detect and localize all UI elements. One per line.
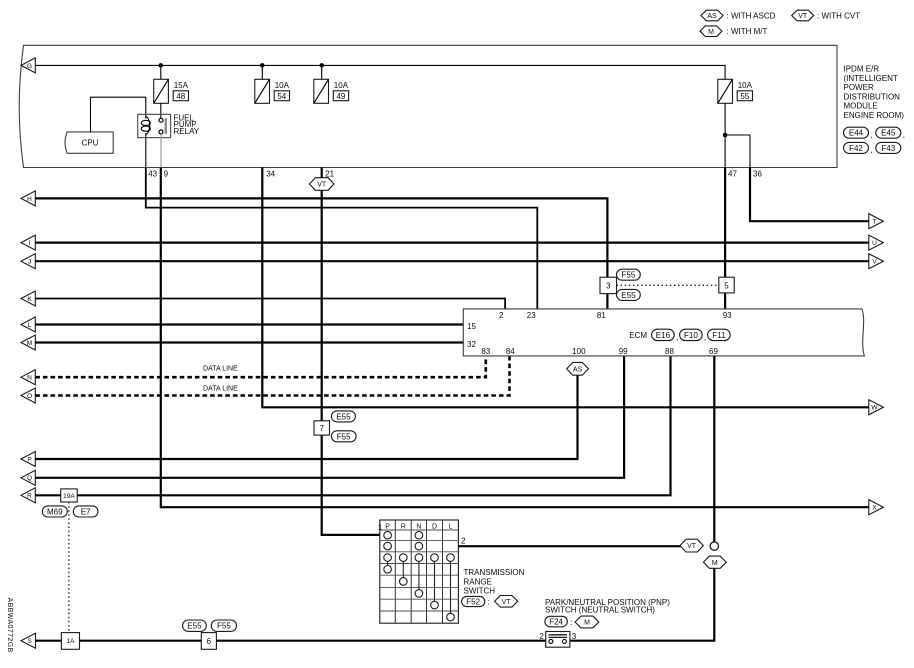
connector E55 at 3 bbox=[617, 289, 641, 300]
node fuse55 junction bbox=[723, 133, 728, 138]
legend symbol M bbox=[700, 26, 767, 37]
svg-text:54: 54 bbox=[277, 92, 286, 101]
TRS contacts column L bbox=[447, 554, 455, 621]
svg-text:R: R bbox=[401, 523, 406, 530]
wire P to ECM pin 100 bbox=[35, 375, 577, 459]
svg-text:3: 3 bbox=[606, 281, 611, 290]
svg-text:(INTELLIGENT: (INTELLIGENT bbox=[844, 74, 898, 83]
connector F10 bbox=[680, 329, 707, 342]
wire node to pin36 bbox=[725, 135, 750, 168]
svg-text:48: 48 bbox=[176, 92, 185, 101]
fuse 54 10A bbox=[255, 79, 290, 103]
svg-text:83: 83 bbox=[481, 347, 490, 356]
wire fuse48 to relay contact bbox=[160, 103, 162, 119]
CPU box bbox=[65, 132, 113, 153]
wire O to ECM pin 84 dashed bbox=[35, 356, 509, 396]
svg-text:,: , bbox=[903, 131, 905, 140]
svg-text:F55: F55 bbox=[217, 622, 231, 631]
connector M bbox=[21, 335, 35, 350]
connector J bbox=[21, 254, 35, 269]
svg-text:15: 15 bbox=[467, 322, 476, 331]
symbol VT on wire 21 bbox=[309, 178, 334, 191]
wire H to ECM pin 81 bbox=[35, 198, 607, 309]
svg-text:P: P bbox=[27, 456, 31, 463]
svg-text:2: 2 bbox=[461, 537, 466, 546]
svg-text::: : bbox=[570, 618, 572, 627]
wire fuse54 to bus bbox=[261, 65, 263, 79]
svg-text:DISTRIBUTION: DISTRIBUTION bbox=[844, 92, 901, 101]
svg-text:3: 3 bbox=[572, 632, 577, 641]
ECM label bbox=[629, 331, 647, 340]
connector 3 bbox=[600, 277, 617, 293]
connector 1A bbox=[61, 633, 79, 650]
wire M to PNP pin3 bbox=[570, 568, 714, 640]
svg-text:RANGE: RANGE bbox=[464, 577, 492, 586]
symbol M at F24 bbox=[575, 616, 599, 628]
svg-text:55: 55 bbox=[740, 92, 749, 101]
wire J to V bbox=[35, 260, 869, 262]
connector F52 bbox=[462, 596, 490, 606]
connector F24 bbox=[545, 616, 572, 627]
connector 6 bbox=[201, 633, 216, 650]
svg-text:IPDM E/R: IPDM E/R bbox=[844, 65, 880, 74]
wire R to ECM pin 88 bbox=[35, 356, 670, 495]
connector E16 bbox=[652, 329, 679, 342]
svg-text:: WITH ASCD: : WITH ASCD bbox=[727, 12, 776, 21]
svg-text:VT: VT bbox=[798, 13, 808, 20]
svg-text:VT: VT bbox=[687, 543, 697, 550]
transmission range switch grid bbox=[380, 520, 459, 623]
svg-text:Q: Q bbox=[27, 475, 32, 482]
wire 21 upper bbox=[321, 168, 323, 178]
svg-text:2: 2 bbox=[539, 632, 544, 641]
svg-text:R: R bbox=[27, 493, 32, 500]
connector 7 bbox=[314, 421, 330, 435]
svg-text:E55: E55 bbox=[621, 291, 636, 300]
svg-text::: : bbox=[488, 598, 490, 607]
connector 5 bbox=[719, 277, 734, 293]
svg-text:6: 6 bbox=[207, 637, 212, 646]
svg-text:F11: F11 bbox=[712, 331, 726, 340]
wire Q to ECM pin 99 bbox=[35, 356, 624, 478]
svg-text:CPU: CPU bbox=[82, 139, 99, 148]
svg-text:M: M bbox=[712, 560, 718, 567]
svg-text:I: I bbox=[29, 240, 31, 247]
wire 36 to T bbox=[750, 168, 869, 222]
svg-text:23: 23 bbox=[527, 311, 536, 320]
legend symbol AS bbox=[701, 10, 776, 21]
svg-text:34: 34 bbox=[266, 170, 275, 179]
svg-text:93: 93 bbox=[723, 311, 732, 320]
svg-text:T: T bbox=[873, 219, 877, 226]
fuse 49 10A bbox=[314, 79, 349, 103]
PNP label bbox=[545, 598, 670, 614]
svg-text:E45: E45 bbox=[881, 129, 896, 138]
wire N to ECM pin 83 dashed bbox=[35, 356, 486, 377]
svg-text:MODULE: MODULE bbox=[844, 102, 878, 111]
svg-text:V: V bbox=[872, 259, 877, 266]
svg-text:: WITH M/T: : WITH M/T bbox=[727, 27, 768, 36]
symbol M below junction bbox=[703, 556, 726, 568]
svg-text:TRANSMISSION: TRANSMISSION bbox=[464, 568, 525, 577]
node fuse54 tap bbox=[260, 63, 265, 68]
TRS label bbox=[464, 568, 525, 596]
svg-text:32: 32 bbox=[467, 340, 476, 349]
svg-text:E7: E7 bbox=[81, 508, 91, 517]
wire 47 to ECM pin 93 bbox=[724, 168, 726, 309]
node fuse48 tap bbox=[159, 63, 164, 68]
svg-text:: WITH CVT: : WITH CVT bbox=[817, 12, 860, 21]
svg-text:M: M bbox=[27, 340, 32, 347]
svg-text:1: 1 bbox=[378, 523, 383, 532]
wire I to U bbox=[35, 242, 869, 244]
svg-text:L: L bbox=[28, 322, 32, 329]
svg-text:1A: 1A bbox=[67, 638, 76, 645]
svg-text:K: K bbox=[27, 296, 32, 303]
svg-text:7: 7 bbox=[319, 424, 324, 433]
node junction circle bbox=[710, 542, 718, 550]
wire M to ECM pin 32 bbox=[35, 341, 463, 343]
connector L bbox=[21, 317, 35, 332]
svg-text:10A: 10A bbox=[334, 81, 349, 90]
svg-text:88: 88 bbox=[665, 347, 674, 356]
wire K to ECM pin 2 bbox=[35, 299, 505, 309]
svg-text:10A: 10A bbox=[738, 81, 753, 90]
svg-text:F42: F42 bbox=[849, 144, 863, 153]
svg-text:E55: E55 bbox=[336, 412, 351, 421]
svg-text:2: 2 bbox=[499, 311, 504, 320]
svg-text:S: S bbox=[28, 638, 33, 645]
svg-text:84: 84 bbox=[506, 347, 515, 356]
connector M69 bbox=[42, 506, 67, 517]
svg-text:ECM: ECM bbox=[629, 331, 647, 340]
svg-text:G: G bbox=[27, 63, 32, 70]
connector N bbox=[21, 370, 35, 385]
svg-text:E16: E16 bbox=[656, 331, 671, 340]
svg-text:ENGINE ROOM): ENGINE ROOM) bbox=[844, 111, 905, 120]
connector E55 at 6 bbox=[183, 620, 207, 631]
wire relay coil to pin43 bbox=[145, 133, 147, 168]
svg-text:DATA LINE: DATA LINE bbox=[203, 366, 238, 373]
svg-text:U: U bbox=[872, 240, 877, 247]
IPDM E/R box bbox=[19, 45, 837, 167]
connector F55 at 6 bbox=[211, 620, 236, 631]
wire 43 to ECM pin 23 bbox=[146, 168, 538, 309]
connector W bbox=[869, 400, 884, 415]
svg-text:SWITCH (NEUTRAL SWITCH): SWITCH (NEUTRAL SWITCH) bbox=[545, 605, 655, 614]
connector R bbox=[21, 488, 35, 503]
TRS contacts column D bbox=[431, 554, 439, 609]
svg-text:X: X bbox=[872, 505, 877, 512]
svg-text:15A: 15A bbox=[174, 81, 189, 90]
svg-text:,: , bbox=[676, 333, 678, 342]
wire bus from G bbox=[35, 65, 725, 79]
wire 3 to 5 dotted bbox=[617, 284, 719, 286]
svg-text:L: L bbox=[449, 523, 453, 530]
svg-text:W: W bbox=[871, 405, 878, 412]
wire 19A to 1A dotted bbox=[68, 502, 70, 633]
svg-text:ABBWA0772GB: ABBWA0772GB bbox=[6, 598, 13, 653]
svg-text:F43: F43 bbox=[881, 144, 895, 153]
connector V bbox=[869, 254, 884, 269]
wire fuse55 to node bbox=[724, 103, 726, 167]
svg-text:N: N bbox=[416, 523, 421, 530]
svg-text:J: J bbox=[28, 259, 31, 266]
svg-text:P: P bbox=[385, 523, 390, 530]
svg-text:69: 69 bbox=[709, 347, 718, 356]
IPDM E/R label bbox=[844, 65, 905, 121]
connector G bbox=[21, 58, 35, 73]
node fuse49 tap bbox=[319, 63, 324, 68]
fuse 48 15A bbox=[154, 79, 189, 103]
wire 21 to TRS pin1 bbox=[322, 190, 380, 535]
svg-text:N: N bbox=[27, 375, 32, 382]
symbol VT on pin69 junction bbox=[680, 539, 703, 552]
svg-text:O: O bbox=[27, 393, 32, 400]
connector F11 bbox=[708, 329, 731, 340]
connector O bbox=[21, 388, 35, 403]
svg-text:,: , bbox=[704, 333, 706, 342]
connector F55 at 7 bbox=[331, 431, 356, 442]
svg-text:M: M bbox=[584, 620, 590, 627]
svg-text:5: 5 bbox=[724, 281, 729, 290]
svg-text:POWER: POWER bbox=[844, 83, 874, 92]
PNP switch bbox=[539, 632, 576, 648]
connector S bbox=[21, 633, 36, 648]
wire 69 to junction bbox=[713, 356, 715, 542]
connector F55 at 3 bbox=[617, 269, 641, 280]
svg-text:D: D bbox=[432, 523, 437, 530]
connector E55 at 7 bbox=[331, 411, 355, 422]
TRS contact lines bbox=[388, 561, 451, 613]
svg-text:SWITCH: SWITCH bbox=[464, 587, 496, 596]
wire S to PNP pin2 bbox=[36, 640, 546, 642]
svg-text:19A: 19A bbox=[63, 493, 75, 500]
connector T bbox=[869, 214, 884, 229]
wire TRS pin2 to VT bbox=[458, 545, 681, 547]
TRS contacts column P bbox=[384, 531, 392, 573]
svg-text:,: , bbox=[871, 131, 873, 140]
wire CPU to relay coil bbox=[91, 97, 146, 132]
wire 34 to W bbox=[262, 168, 869, 408]
connector K bbox=[21, 291, 35, 306]
wire L to ECM pin 15 bbox=[35, 323, 463, 325]
fuse 55 10A bbox=[718, 79, 753, 103]
svg-text:M: M bbox=[708, 29, 714, 36]
svg-text:VT: VT bbox=[317, 182, 327, 189]
TRS contacts column N bbox=[415, 531, 423, 597]
connector H bbox=[21, 191, 35, 206]
wire 9 to X bbox=[161, 168, 869, 508]
connector F43 bbox=[876, 142, 901, 153]
connector 19A bbox=[61, 489, 77, 502]
svg-text:F24: F24 bbox=[549, 618, 563, 627]
svg-text:F55: F55 bbox=[337, 432, 351, 441]
connector X bbox=[869, 500, 884, 515]
wire fuse49 to bus bbox=[321, 65, 323, 79]
svg-text:AS: AS bbox=[573, 366, 583, 373]
svg-text:F52: F52 bbox=[466, 598, 480, 607]
svg-text:M69: M69 bbox=[47, 508, 63, 517]
connector F42 bbox=[844, 142, 873, 154]
svg-text:RELAY: RELAY bbox=[174, 127, 200, 136]
symbol VT at F52 bbox=[495, 596, 518, 608]
svg-text:VT: VT bbox=[502, 599, 512, 606]
legend symbol VT bbox=[792, 10, 861, 21]
svg-text:E55: E55 bbox=[187, 622, 202, 631]
fuel pump relay bbox=[138, 113, 200, 137]
wire fuse48 to bus bbox=[160, 65, 162, 79]
connector E45 bbox=[876, 127, 905, 139]
svg-text:10A: 10A bbox=[275, 81, 290, 90]
symbol AS on pin 100 wire bbox=[567, 362, 589, 375]
svg-text:DATA LINE: DATA LINE bbox=[203, 385, 238, 392]
svg-text:,: , bbox=[871, 146, 873, 155]
connector E7 bbox=[73, 506, 98, 517]
connector P bbox=[21, 452, 35, 467]
connector E44 bbox=[844, 127, 873, 139]
svg-text:AS: AS bbox=[707, 13, 717, 20]
svg-text:F10: F10 bbox=[684, 331, 698, 340]
svg-text:49: 49 bbox=[336, 92, 345, 101]
svg-text:47: 47 bbox=[728, 170, 737, 179]
svg-text:F55: F55 bbox=[622, 271, 636, 280]
svg-text:81: 81 bbox=[597, 311, 606, 320]
svg-text:E44: E44 bbox=[849, 129, 864, 138]
svg-text:43: 43 bbox=[148, 170, 157, 179]
wire relay contact to pin9 bbox=[160, 134, 162, 168]
svg-text:9: 9 bbox=[164, 170, 169, 179]
connector U bbox=[869, 235, 884, 250]
svg-text:100: 100 bbox=[572, 347, 586, 356]
TRS contacts column R bbox=[400, 554, 408, 585]
connector Q bbox=[21, 470, 35, 485]
svg-text:H: H bbox=[27, 196, 32, 203]
connector I bbox=[21, 235, 35, 250]
ECM box bbox=[463, 309, 864, 356]
svg-text:99: 99 bbox=[619, 347, 628, 356]
svg-text:36: 36 bbox=[753, 170, 762, 179]
